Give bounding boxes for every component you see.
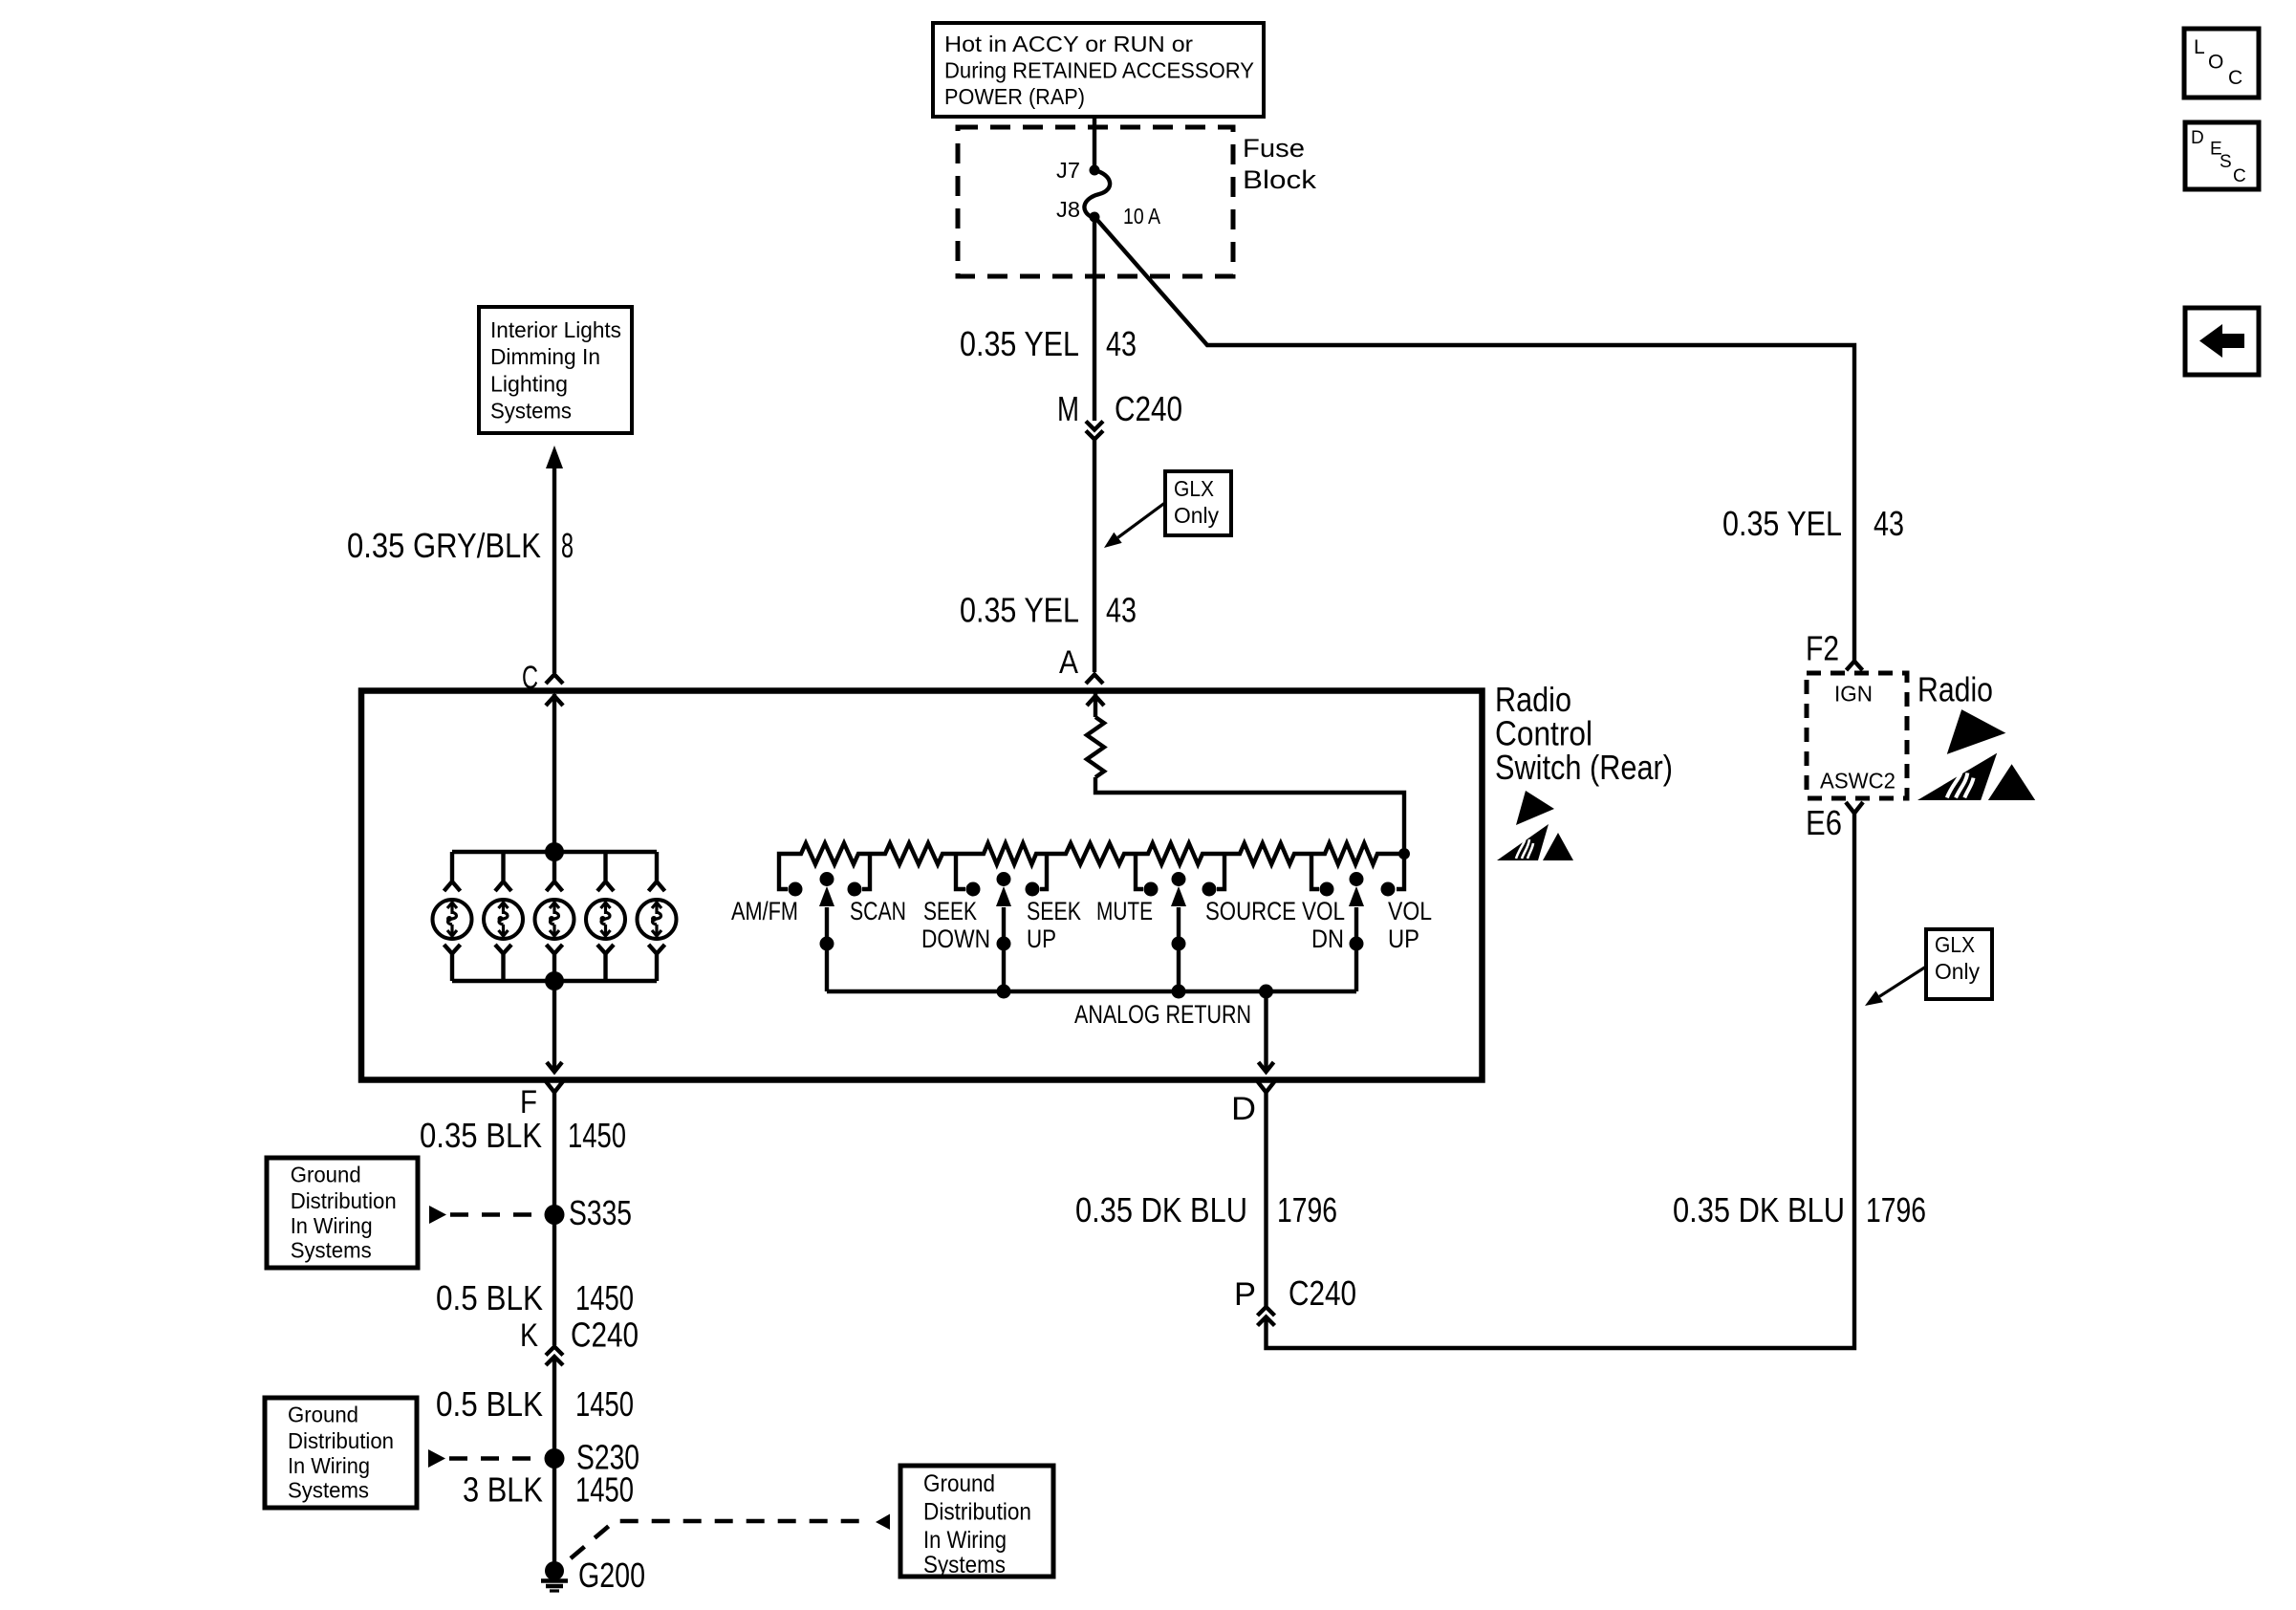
svg-text:Systems: Systems — [923, 1552, 1006, 1578]
svg-text:1450: 1450 — [568, 1116, 626, 1155]
svg-text:Interior Lights: Interior Lights — [490, 317, 621, 342]
svg-text:Systems: Systems — [291, 1238, 372, 1263]
svg-text:MUTE: MUTE — [1096, 897, 1153, 925]
svg-text:8: 8 — [561, 526, 574, 565]
svg-text:P: P — [1234, 1276, 1256, 1313]
svg-text:0.35 YEL: 0.35 YEL — [960, 324, 1079, 363]
svg-text:S: S — [2220, 152, 2232, 172]
svg-text:C240: C240 — [1289, 1273, 1356, 1313]
svg-text:1450: 1450 — [575, 1470, 634, 1510]
svg-text:Systems: Systems — [490, 399, 572, 424]
svg-text:0.35 YEL: 0.35 YEL — [960, 591, 1079, 630]
svg-text:10 A: 10 A — [1123, 204, 1161, 228]
svg-text:POWER (RAP): POWER (RAP) — [944, 84, 1085, 109]
svg-text:Distribution: Distribution — [291, 1188, 397, 1213]
svg-text:0.35 DK BLU: 0.35 DK BLU — [1673, 1190, 1845, 1229]
svg-text:In Wiring: In Wiring — [923, 1527, 1007, 1554]
svg-text:IGN: IGN — [1834, 682, 1873, 707]
svg-text:C: C — [2233, 166, 2246, 186]
svg-text:Distribution: Distribution — [923, 1499, 1031, 1526]
svg-text:During RETAINED ACCESSORY: During RETAINED ACCESSORY — [944, 58, 1254, 83]
svg-text:S335: S335 — [569, 1193, 632, 1232]
svg-text:Ground: Ground — [291, 1163, 361, 1187]
svg-text:0.35 YEL: 0.35 YEL — [1722, 504, 1842, 543]
svg-text:SEEK: SEEK — [923, 897, 977, 925]
svg-text:C240: C240 — [1115, 389, 1182, 428]
svg-text:UP: UP — [1027, 925, 1056, 953]
svg-text:L: L — [2194, 36, 2205, 58]
svg-text:VOL: VOL — [1388, 897, 1432, 925]
svg-text:In Wiring: In Wiring — [291, 1213, 373, 1238]
svg-text:0.35 GRY/BLK: 0.35 GRY/BLK — [347, 526, 541, 565]
svg-text:Radio: Radio — [1917, 670, 1993, 709]
svg-text:D: D — [1231, 1091, 1256, 1127]
svg-text:Fuse: Fuse — [1243, 134, 1305, 163]
svg-text:DN: DN — [1311, 925, 1344, 953]
svg-text:F2: F2 — [1806, 629, 1839, 668]
svg-text:SCAN: SCAN — [850, 897, 906, 925]
svg-text:Only: Only — [1935, 959, 1980, 984]
svg-text:Ground: Ground — [923, 1470, 995, 1497]
svg-text:VOL: VOL — [1302, 897, 1345, 925]
svg-text:K: K — [520, 1317, 538, 1354]
svg-text:ASWC2: ASWC2 — [1820, 769, 1895, 794]
svg-text:Systems: Systems — [288, 1478, 369, 1503]
svg-text:0.5 BLK: 0.5 BLK — [436, 1278, 543, 1317]
svg-text:Hot in ACCY or RUN or: Hot in ACCY or RUN or — [944, 32, 1193, 56]
svg-text:SOURCE: SOURCE — [1205, 897, 1296, 925]
svg-text:Distribution: Distribution — [288, 1428, 394, 1453]
svg-text:In Wiring: In Wiring — [288, 1453, 370, 1478]
svg-text:SEEK: SEEK — [1027, 897, 1081, 925]
svg-text:C240: C240 — [571, 1316, 639, 1355]
svg-text:Only: Only — [1174, 503, 1219, 528]
svg-text:GLX: GLX — [1174, 476, 1214, 501]
svg-text:43: 43 — [1106, 324, 1137, 363]
svg-text:0.35 DK BLU: 0.35 DK BLU — [1075, 1190, 1247, 1229]
svg-text:GLX: GLX — [1935, 932, 1975, 957]
svg-text:A: A — [1059, 644, 1078, 681]
svg-text:E6: E6 — [1806, 803, 1842, 842]
svg-text:3 BLK: 3 BLK — [463, 1470, 543, 1510]
svg-text:1450: 1450 — [575, 1278, 634, 1317]
svg-text:0.35 BLK: 0.35 BLK — [420, 1116, 542, 1155]
svg-text:Dimming In: Dimming In — [490, 344, 600, 369]
svg-text:DOWN: DOWN — [921, 925, 990, 953]
svg-text:J7: J7 — [1056, 158, 1080, 183]
svg-text:43: 43 — [1106, 591, 1137, 630]
svg-text:AM/FM: AM/FM — [731, 897, 798, 925]
svg-text:D: D — [2191, 128, 2204, 148]
svg-text:Lighting: Lighting — [490, 372, 568, 397]
svg-text:M: M — [1057, 389, 1079, 428]
svg-text:G200: G200 — [578, 1556, 645, 1595]
svg-text:UP: UP — [1388, 925, 1419, 953]
svg-text:O: O — [2208, 52, 2223, 74]
svg-text:Block: Block — [1243, 165, 1317, 194]
svg-text:J8: J8 — [1056, 197, 1080, 222]
svg-text:1450: 1450 — [575, 1384, 634, 1424]
svg-text:0.5 BLK: 0.5 BLK — [436, 1384, 543, 1424]
svg-text:C: C — [2228, 67, 2242, 89]
svg-text:ANALOG RETURN: ANALOG RETURN — [1074, 1000, 1251, 1029]
svg-text:43: 43 — [1874, 504, 1904, 543]
svg-text:1796: 1796 — [1866, 1190, 1926, 1229]
svg-text:Ground: Ground — [288, 1403, 358, 1427]
svg-text:Switch (Rear): Switch (Rear) — [1495, 748, 1673, 787]
svg-text:1796: 1796 — [1277, 1190, 1337, 1229]
